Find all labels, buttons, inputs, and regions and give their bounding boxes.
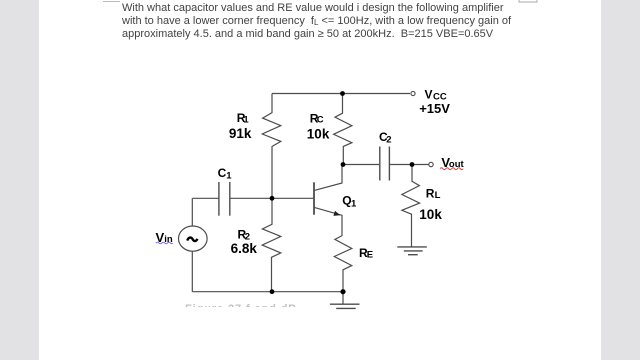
svg-text:RL: RL — [426, 187, 441, 202]
svg-text:R1: R1 — [237, 111, 250, 126]
svg-text:RE: RE — [359, 246, 373, 261]
svg-text:91k: 91k — [229, 126, 252, 141]
svg-text:+15V: +15V — [419, 101, 450, 116]
svg-text:Q1: Q1 — [342, 194, 357, 210]
svg-text:6.8k: 6.8k — [231, 241, 258, 256]
svg-text:C2: C2 — [379, 130, 392, 145]
svg-text:C1: C1 — [218, 166, 233, 181]
svg-text:RC: RC — [310, 111, 324, 125]
svg-text:10k: 10k — [419, 207, 442, 222]
svg-text:10k: 10k — [307, 126, 330, 141]
